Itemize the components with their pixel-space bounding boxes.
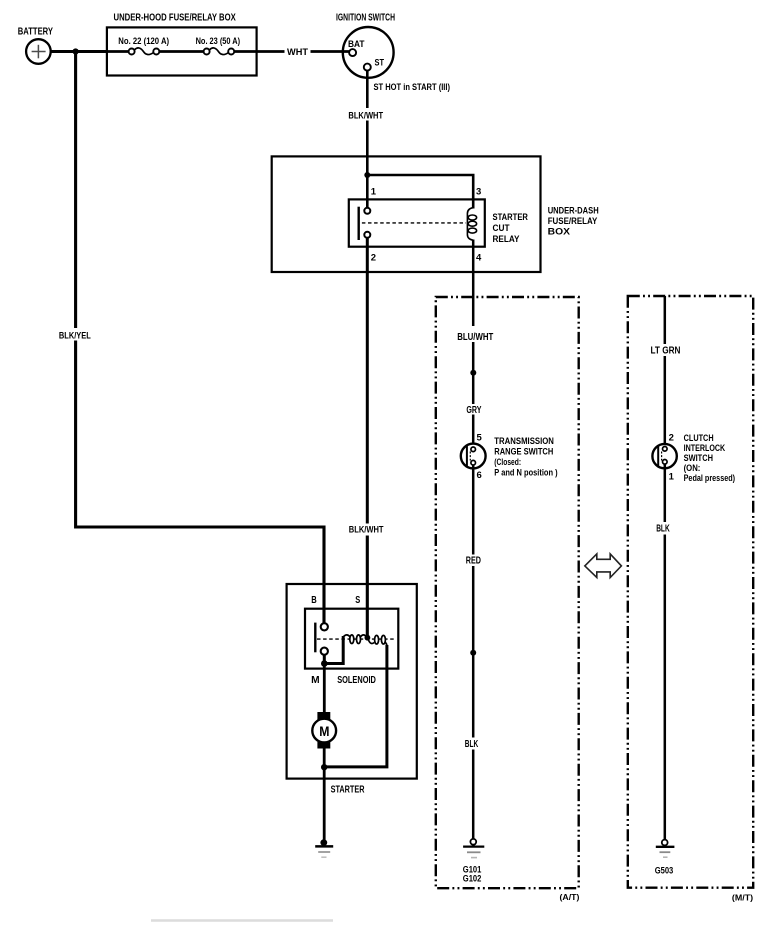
svg-text:G503: G503 xyxy=(655,866,674,876)
svg-text:BLK/YEL: BLK/YEL xyxy=(59,330,91,341)
fuse No.23 50A xyxy=(196,36,241,54)
svg-text:(A/T): (A/T) xyxy=(560,892,580,902)
M/T dashed box xyxy=(628,296,753,888)
svg-text:GRY: GRY xyxy=(466,405,481,416)
svg-text:BAT: BAT xyxy=(348,39,365,50)
solenoid contact xyxy=(315,623,394,655)
svg-text:No. 23 (50 A): No. 23 (50 A) xyxy=(196,36,241,46)
label clutch interlock switch xyxy=(684,433,736,483)
wire BLK/YEL battery to starter B xyxy=(76,52,324,624)
node solenoid M junction xyxy=(321,660,328,667)
wire clutch switch to ground BLK xyxy=(664,464,667,840)
svg-text:S: S xyxy=(355,595,360,606)
clutch interlock switch xyxy=(652,444,676,468)
svg-text:BOX: BOX xyxy=(548,226,571,237)
solenoid box xyxy=(305,609,398,669)
starter box xyxy=(287,584,417,779)
svg-text:UNDER-DASH: UNDER-DASH xyxy=(548,205,599,216)
svg-text:6: 6 xyxy=(477,470,482,481)
wire LT GRN down to clutch switch xyxy=(664,296,667,447)
svg-text:G102: G102 xyxy=(463,874,482,884)
wire battery to fuse box xyxy=(51,50,107,53)
scan artifact faint line xyxy=(151,919,333,922)
wire coil right lead down xyxy=(324,645,387,767)
svg-text:1: 1 xyxy=(669,471,675,482)
svg-text:M: M xyxy=(311,675,320,686)
svg-text:3: 3 xyxy=(476,187,481,198)
ground G101 G102 xyxy=(463,839,485,884)
arrow A/T-M/T xyxy=(585,554,622,578)
svg-text:1: 1 xyxy=(371,187,377,198)
svg-text:5: 5 xyxy=(477,433,483,444)
svg-text:STARTER: STARTER xyxy=(331,784,365,795)
motor starter xyxy=(312,712,336,749)
svg-text:CLUTCH: CLUTCH xyxy=(684,433,714,443)
ground G503 xyxy=(655,840,675,876)
svg-text:BLK/WHT: BLK/WHT xyxy=(349,525,384,536)
svg-text:BLK: BLK xyxy=(656,524,670,535)
node splice xyxy=(470,650,476,656)
svg-text:ST: ST xyxy=(375,58,385,69)
fuse No.22 120A xyxy=(118,36,169,54)
svg-text:ST HOT in START (III): ST HOT in START (III) xyxy=(374,82,451,93)
svg-text:4: 4 xyxy=(476,253,482,264)
wire ST down BLK/WHT xyxy=(366,71,369,157)
svg-text:(ON:: (ON: xyxy=(684,463,701,473)
wire pin 2 down BLK/WHT to solenoid S xyxy=(366,238,369,638)
node S coil junction xyxy=(365,635,371,641)
svg-text:B: B xyxy=(311,595,317,606)
svg-text:LT GRN: LT GRN xyxy=(651,346,681,357)
svg-text:INTERLOCK: INTERLOCK xyxy=(684,443,726,453)
svg-text:TRANSMISSION: TRANSMISSION xyxy=(494,436,554,446)
transmission range switch xyxy=(461,444,486,469)
wire contact to coil xyxy=(324,636,343,664)
svg-text:CUT: CUT xyxy=(493,223,510,234)
svg-text:RED: RED xyxy=(466,556,481,567)
terminal ST xyxy=(364,58,384,71)
svg-text:BLU/WHT: BLU/WHT xyxy=(457,332,493,343)
wire WHT fusebox to ignition xyxy=(257,50,350,53)
svg-text:2: 2 xyxy=(371,253,376,264)
svg-text:WHT: WHT xyxy=(287,47,308,58)
solenoid coil xyxy=(343,635,387,646)
wire into relay pin 1 xyxy=(366,156,369,208)
svg-text:BLK/WHT: BLK/WHT xyxy=(348,111,383,122)
wire M to motor xyxy=(323,666,326,713)
ground starter xyxy=(315,839,333,857)
label transmission range switch xyxy=(494,436,557,478)
svg-text:STARTER: STARTER xyxy=(493,212,529,223)
svg-text:2: 2 xyxy=(669,433,674,444)
svg-text:SOLENOID: SOLENOID xyxy=(337,675,376,686)
svg-text:BLK: BLK xyxy=(465,739,479,750)
wire junction to pin 3 xyxy=(367,175,473,209)
svg-text:(Closed:: (Closed: xyxy=(494,457,521,467)
svg-text:RANGE SWITCH: RANGE SWITCH xyxy=(494,447,553,457)
wire inside fuse box xyxy=(107,50,257,53)
svg-text:BATTERY: BATTERY xyxy=(18,26,53,37)
terminal BAT xyxy=(348,39,365,56)
wire motor to ground xyxy=(323,748,326,840)
svg-text:(M/T): (M/T) xyxy=(732,893,753,903)
svg-text:RELAY: RELAY xyxy=(493,234,521,245)
battery xyxy=(18,26,53,64)
svg-text:P and N position ): P and N position ) xyxy=(494,468,557,478)
wire pin 4 down xyxy=(472,240,475,448)
ignition switch xyxy=(336,13,395,78)
node battery junction xyxy=(73,48,79,54)
svg-text:No. 22 (120 A): No. 22 (120 A) xyxy=(118,36,169,46)
svg-text:Pedal pressed): Pedal pressed) xyxy=(684,473,736,483)
svg-text:M: M xyxy=(319,723,329,739)
relay contact xyxy=(359,207,466,240)
wire TRS to ground xyxy=(472,465,475,839)
svg-text:IGNITION SWITCH: IGNITION SWITCH xyxy=(336,13,395,24)
svg-text:SWITCH: SWITCH xyxy=(684,453,713,463)
svg-text:FUSE/RELAY: FUSE/RELAY xyxy=(548,216,598,227)
node relay feed junction xyxy=(364,172,370,178)
under-dash fuse/relay box xyxy=(272,156,599,272)
svg-text:UNDER-HOOD FUSE/RELAY BOX: UNDER-HOOD FUSE/RELAY BOX xyxy=(114,13,237,24)
node splice xyxy=(470,370,476,376)
starter cut relay box xyxy=(349,199,485,246)
node starter output junction xyxy=(321,764,327,770)
under-hood fuse/relay box xyxy=(107,13,257,76)
relay coil xyxy=(467,208,476,241)
A/T dashed box xyxy=(436,297,579,888)
label STARTER CUT RELAY xyxy=(493,212,529,245)
